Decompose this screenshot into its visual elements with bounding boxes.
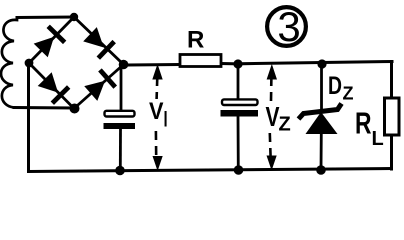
- node: bridge top corner: [70, 13, 78, 21]
- transformer secondary winding: [1, 18, 17, 108]
- capacitor C2: [221, 99, 259, 116]
- svg-text:3: 3: [277, 3, 300, 50]
- svg-text:R: R: [355, 106, 372, 141]
- wire: capacitor C1 top lead: [120, 65, 123, 111]
- node: top rail at zener DZ: [317, 59, 326, 68]
- label DZ: [328, 72, 354, 104]
- wire: load resistor bottom lead: [390, 136, 393, 169]
- wire: zener top lead: [320, 64, 323, 110]
- capacitor C1: [104, 111, 136, 129]
- wire from bridge left corner down to bottom rail: [27, 63, 30, 172]
- node: bottom rail at capacitor C1: [115, 166, 125, 176]
- svg-text:Z: Z: [279, 114, 291, 136]
- wire: capacitor C1 bottom lead: [119, 129, 122, 171]
- diode D2 (upper-right arm of bridge): [82, 26, 114, 58]
- svg-text:R: R: [187, 27, 204, 54]
- diode D4 (lower-right arm of bridge): [84, 70, 116, 102]
- node: bridge right corner: [119, 60, 129, 70]
- svg-text:D: D: [328, 72, 342, 100]
- node: top rail at capacitor C2: [233, 59, 242, 68]
- svg-text:L: L: [372, 128, 384, 150]
- wire: bottom rail: [29, 169, 392, 172]
- figure number 3 (circled): [267, 3, 306, 50]
- bridge frame wires (diamond): [29, 17, 124, 109]
- resistor R: [180, 55, 221, 67]
- node: bottom rail at capacitor C2: [234, 165, 244, 175]
- load resistor RL: [385, 98, 400, 135]
- wire: capacitor C2 bottom lead: [237, 117, 240, 171]
- wire: top rail left segment (bridge to resistor R): [124, 63, 180, 67]
- wire: top rail middle segment (resistor R to node B): [221, 62, 238, 65]
- label V1: [149, 98, 169, 132]
- node: bridge bottom corner: [70, 104, 80, 114]
- wire from winding bottom to bridge bottom corner: [14, 106, 74, 110]
- voltage arrow VZ: [267, 66, 276, 170]
- wire: right side down to load resistor: [390, 62, 393, 98]
- node: bridge left corner: [25, 59, 34, 68]
- diode D3 (lower-left arm of bridge): [37, 71, 69, 103]
- svg-text:V: V: [149, 98, 164, 125]
- zener diode DZ: [299, 104, 342, 135]
- wire from winding top to bridge top corner: [17, 16, 74, 20]
- diode D1 (upper-left arm of bridge): [33, 26, 65, 58]
- label VZ: [266, 101, 291, 136]
- label RL: [355, 106, 384, 151]
- wire: top rail right segment (node B to node C to right corner): [238, 62, 392, 64]
- wire: capacitor C2 top lead: [237, 64, 240, 100]
- svg-text:I: I: [163, 107, 169, 132]
- svg-text:Z: Z: [343, 84, 354, 104]
- voltage arrow V1: [153, 66, 162, 170]
- wire: zener bottom lead: [320, 133, 323, 170]
- node: bottom rail at zener DZ: [316, 165, 326, 175]
